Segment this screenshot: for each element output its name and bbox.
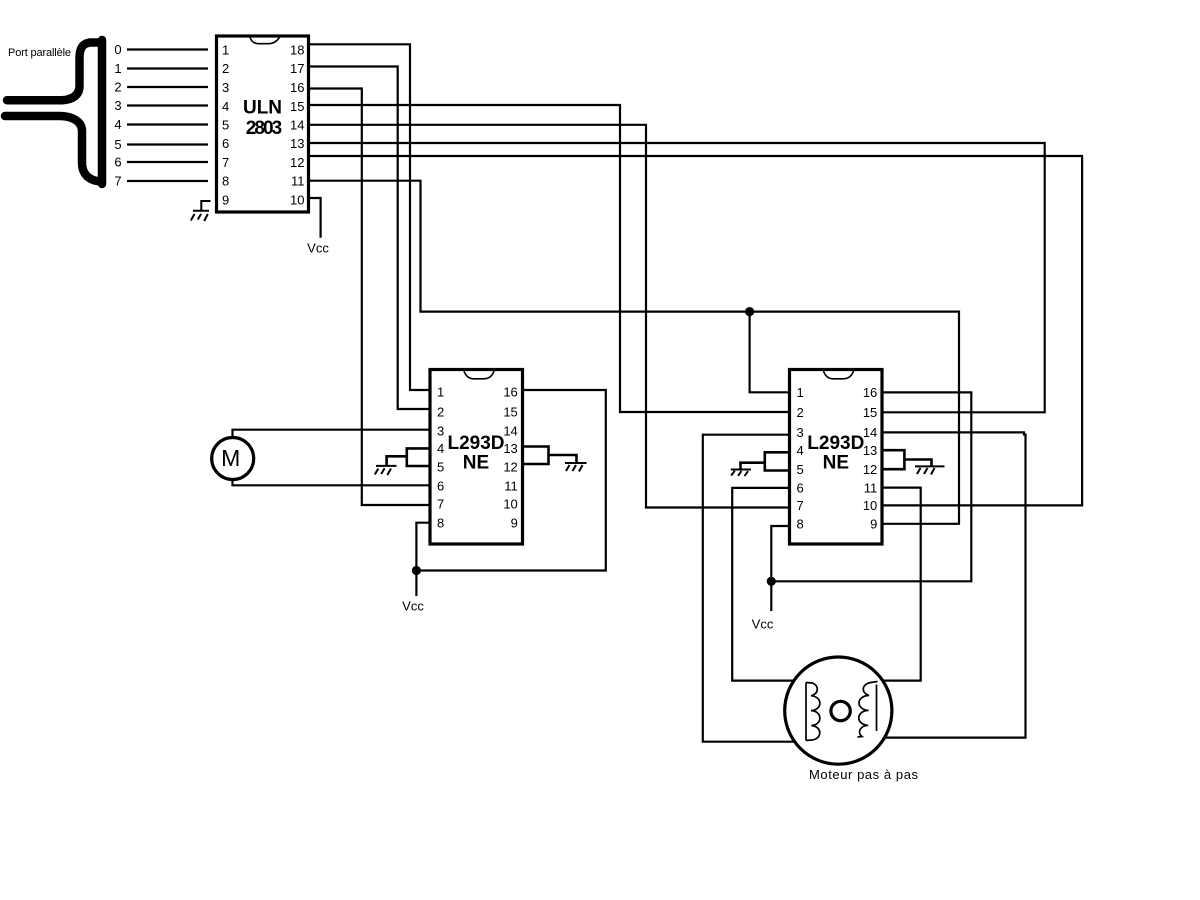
svg-text:14: 14 <box>290 118 304 133</box>
svg-text:11: 11 <box>504 478 518 493</box>
svg-text:Port parallèle: Port parallèle <box>8 47 71 59</box>
svg-text:14: 14 <box>863 425 877 440</box>
bracket U2 pins 4-5 <box>387 448 429 466</box>
svg-text:6: 6 <box>222 136 229 151</box>
svg-text:11: 11 <box>864 480 878 495</box>
U1 left pin numbers 1-9 <box>222 43 229 208</box>
U1 right pin numbers 18-10 <box>290 43 304 208</box>
wire D0 to U1 pin1 <box>127 48 208 50</box>
svg-text:13: 13 <box>863 443 877 458</box>
connector J1 port parallele symbol <box>5 40 102 184</box>
svg-text:7: 7 <box>114 174 121 189</box>
bracket U2 pins 13-12 <box>523 447 577 465</box>
svg-text:5: 5 <box>437 459 444 474</box>
svg-text:4: 4 <box>437 441 444 456</box>
ground at U2 pins 4-5 <box>375 466 397 475</box>
svg-text:8: 8 <box>797 517 804 532</box>
svg-text:15: 15 <box>503 404 517 419</box>
node junction B <box>412 566 421 575</box>
svg-text:6: 6 <box>797 480 804 495</box>
label Moteur pas a pas <box>809 767 919 782</box>
svg-text:9: 9 <box>870 517 877 532</box>
svg-text:16: 16 <box>503 385 517 400</box>
ground at U3 pins 13-12 <box>915 466 945 474</box>
wire D5 to U1 pin6 <box>127 143 208 145</box>
svg-text:10: 10 <box>503 497 517 512</box>
svg-text:6: 6 <box>437 478 444 493</box>
wire M1 top to U2 pin3 <box>233 430 430 438</box>
IC U1 ULN2803 body <box>217 36 309 212</box>
wire M1 bottom to U2 pin6 <box>233 479 430 485</box>
ground at U3 pins 4-5 <box>731 470 751 477</box>
wire branch to U3 pin1 <box>750 312 789 393</box>
wire U3 pin6 to stepper coil L top <box>732 488 808 681</box>
svg-text:M: M <box>221 445 240 471</box>
stepper coil R <box>858 682 878 738</box>
wire U2 pin16 to Vcc rail <box>416 390 605 571</box>
svg-text:11: 11 <box>291 174 305 189</box>
wire D2 to U1 pin3 <box>127 86 208 88</box>
svg-text:18: 18 <box>290 43 304 58</box>
svg-text:NE: NE <box>463 453 489 474</box>
svg-text:1: 1 <box>114 61 121 76</box>
svg-text:12: 12 <box>863 462 877 477</box>
wire U1 pin14 to U3 pin7 <box>310 125 789 508</box>
wire D1 to U1 pin2 <box>127 67 208 69</box>
wire D4 to U1 pin5 <box>127 123 208 125</box>
U2 left pin numbers 1-8 <box>437 385 444 531</box>
wire U1 pin11 to U3 pin9 <box>310 181 959 524</box>
svg-text:4: 4 <box>114 117 121 132</box>
svg-text:3: 3 <box>114 98 121 113</box>
IC U3 L293D body <box>790 370 883 545</box>
wire U1 pin13 to U3 pin15 <box>310 143 1045 412</box>
svg-text:1: 1 <box>222 43 229 58</box>
power Vcc at U1 pin 10 <box>307 198 329 256</box>
wire U1 pin18 to U2 pin1 <box>310 44 429 390</box>
wire U3 pin11 to stepper coil R top <box>875 488 921 681</box>
IC U2 L293D body <box>430 370 523 545</box>
svg-text:NE: NE <box>823 453 849 474</box>
ground at U1 pin 9 <box>191 201 211 221</box>
svg-text:16: 16 <box>290 80 304 95</box>
wire U3 pin16 to Vcc rail <box>771 392 971 581</box>
node junction A <box>745 307 754 316</box>
svg-text:5: 5 <box>797 462 804 477</box>
svg-text:10: 10 <box>290 192 304 207</box>
svg-text:2803: 2803 <box>246 118 283 139</box>
wire U3 pin14 to stepper coil R bottom <box>858 432 1026 737</box>
svg-text:8: 8 <box>437 516 444 531</box>
svg-text:0: 0 <box>114 42 121 57</box>
svg-text:3: 3 <box>222 80 229 95</box>
svg-text:2: 2 <box>797 405 804 420</box>
svg-text:13: 13 <box>503 441 517 456</box>
svg-text:Vcc: Vcc <box>307 241 329 256</box>
svg-text:8: 8 <box>222 174 229 189</box>
U2 right pin numbers 16-9 <box>503 385 517 531</box>
wire U1 pin16 to U2 pin7 <box>310 89 429 506</box>
node junction C <box>767 577 776 586</box>
svg-text:5: 5 <box>114 137 121 152</box>
svg-text:13: 13 <box>290 136 304 151</box>
wire U3 pin8 to Vcc <box>771 526 789 611</box>
svg-text:Vcc: Vcc <box>752 617 774 632</box>
svg-text:9: 9 <box>511 516 518 531</box>
svg-text:3: 3 <box>437 423 444 438</box>
svg-text:7: 7 <box>437 497 444 512</box>
bracket U3 pins 13-12 <box>882 450 932 469</box>
label Port parallele <box>8 47 71 59</box>
node labels D0-D7 <box>114 42 121 189</box>
svg-text:6: 6 <box>114 155 121 170</box>
svg-text:12: 12 <box>503 459 517 474</box>
wire D7 to U1 pin8 <box>127 180 208 182</box>
svg-text:15: 15 <box>863 405 877 420</box>
svg-text:12: 12 <box>290 155 304 170</box>
svg-text:3: 3 <box>797 425 804 440</box>
svg-text:7: 7 <box>797 498 804 513</box>
svg-text:10: 10 <box>863 498 877 513</box>
svg-text:2: 2 <box>114 80 121 95</box>
svg-text:L293D: L293D <box>807 433 864 454</box>
svg-text:Moteur pas à pas: Moteur pas à pas <box>809 767 919 782</box>
svg-text:4: 4 <box>222 99 229 114</box>
motor M1 DC motor <box>212 438 254 480</box>
svg-text:9: 9 <box>222 192 229 207</box>
svg-text:2: 2 <box>222 61 229 76</box>
wire D3 to U1 pin4 <box>127 104 208 106</box>
wire U3 pin3 to stepper coil L bottom <box>703 435 806 742</box>
U3 left pin numbers 1-8 <box>797 385 804 531</box>
wire U1 pin15 to U3 pin2 <box>310 105 789 412</box>
wire D6 to U1 pin7 <box>127 161 208 163</box>
svg-text:L293D: L293D <box>447 433 504 454</box>
svg-text:1: 1 <box>437 385 444 400</box>
svg-text:Vcc: Vcc <box>402 599 424 614</box>
svg-text:7: 7 <box>222 155 229 170</box>
wire U2 pin8 to Vcc <box>416 523 429 596</box>
svg-text:2: 2 <box>437 404 444 419</box>
power Vcc at U2 <box>402 599 424 614</box>
svg-text:1: 1 <box>797 385 804 400</box>
svg-text:ULN: ULN <box>243 98 282 119</box>
svg-text:4: 4 <box>797 443 804 458</box>
wire U1 pin17 to U2 pin2 <box>310 67 429 410</box>
svg-text:5: 5 <box>222 118 229 133</box>
svg-text:17: 17 <box>290 61 304 76</box>
svg-text:14: 14 <box>503 423 517 438</box>
bracket U3 pins 4-5 <box>741 452 790 470</box>
power Vcc at U3 <box>752 617 774 632</box>
motor M2 stepper body <box>785 657 892 764</box>
stepper coil L <box>806 683 820 741</box>
ground at U2 pins 13-12 <box>565 463 587 472</box>
svg-text:15: 15 <box>290 99 304 114</box>
svg-text:16: 16 <box>863 385 877 400</box>
wire U1 pin12 to U3 pin10 <box>310 156 1082 505</box>
U3 right pin numbers 16-9 <box>863 385 877 531</box>
